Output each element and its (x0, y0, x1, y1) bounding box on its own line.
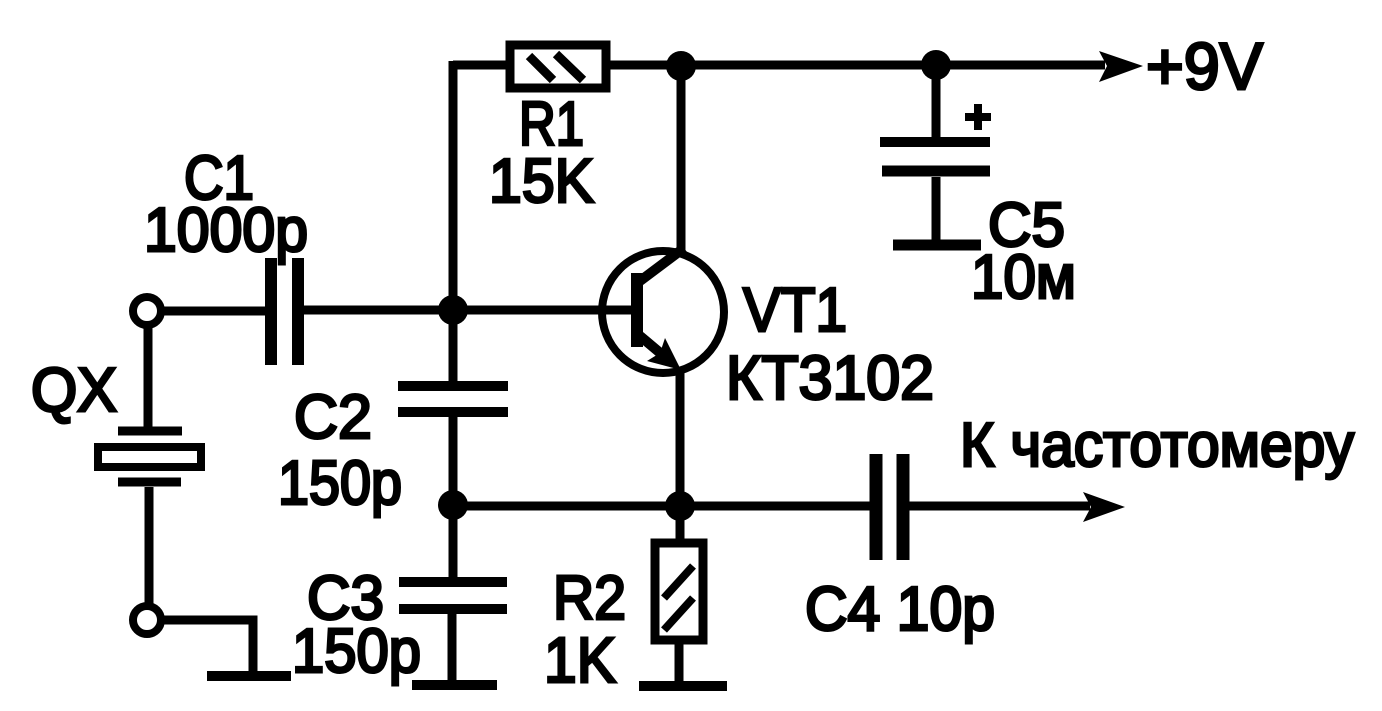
ground : input (207, 671, 291, 681)
resistor R2 (655, 543, 703, 640)
svg-text:1K: 1K (544, 624, 616, 696)
wire : top circle to crystal (144, 325, 153, 427)
wire : base wire (304, 306, 633, 315)
wire : R2 to ground (675, 644, 684, 681)
svg-text:VT1: VT1 (743, 276, 847, 345)
output arrow (1083, 492, 1125, 522)
ground : R2 (639, 681, 727, 691)
svg-text:КТ3102: КТ3102 (726, 344, 934, 413)
wire : C3 to ground (448, 614, 457, 680)
power arrow to +9V (1099, 51, 1143, 82)
node A : collector-rail junction (666, 51, 696, 81)
node B : C5-rail junction (921, 50, 951, 80)
svg-text:1000p: 1000p (144, 196, 308, 265)
wire : input to C1 (161, 307, 265, 316)
svg-text:C2: C2 (294, 383, 372, 452)
wire : rail to C5 (932, 65, 941, 137)
wire : C5 to ground (932, 177, 941, 240)
wire : C2 to node 2 (449, 417, 458, 577)
node : emitter junction (665, 491, 695, 521)
capacitor C3 (399, 582, 507, 609)
wire : crystal to bottom circle (145, 487, 154, 606)
wire : node to R2 (676, 506, 685, 539)
svg-text:150p: 150p (278, 449, 402, 518)
capacitor C5 (880, 142, 990, 171)
node : C2-C3 junction (438, 490, 468, 520)
svg-text:150p: 150p (292, 617, 421, 686)
capacitor C1 (271, 258, 298, 365)
svg-text:15K: 15K (489, 147, 594, 216)
capacitor C4 (876, 454, 903, 560)
wire : emitter row horizontal (453, 502, 870, 511)
crystal QX (98, 431, 201, 482)
resistor R1 (510, 45, 606, 88)
capacitor C2 (398, 386, 508, 412)
terminal : input bottom (133, 606, 161, 634)
wire : +9V top rail (453, 61, 1105, 70)
wire : emitter vertical (676, 368, 685, 506)
ground : C5 (893, 240, 981, 251)
polarity plus C5 (965, 104, 991, 130)
wire : bottom circle to ground (161, 620, 253, 672)
svg-text:QX: QX (31, 356, 117, 425)
svg-text:10м: 10м (971, 243, 1076, 312)
transistor VT1 (602, 248, 724, 373)
wire : collector vertical (677, 66, 686, 250)
ground : C3 (412, 680, 497, 690)
node : base node (438, 295, 468, 325)
svg-text:C4 10p: C4 10p (805, 575, 995, 644)
svg-text:К частотомеру: К частотомеру (960, 411, 1354, 480)
wire : left feedback vertical from rail to base node (449, 61, 458, 381)
wire : C4 to output arrow (909, 502, 1090, 511)
svg-text:R2: R2 (553, 564, 626, 633)
terminal : input top (133, 297, 161, 325)
svg-text:+9V: +9V (1146, 29, 1263, 103)
